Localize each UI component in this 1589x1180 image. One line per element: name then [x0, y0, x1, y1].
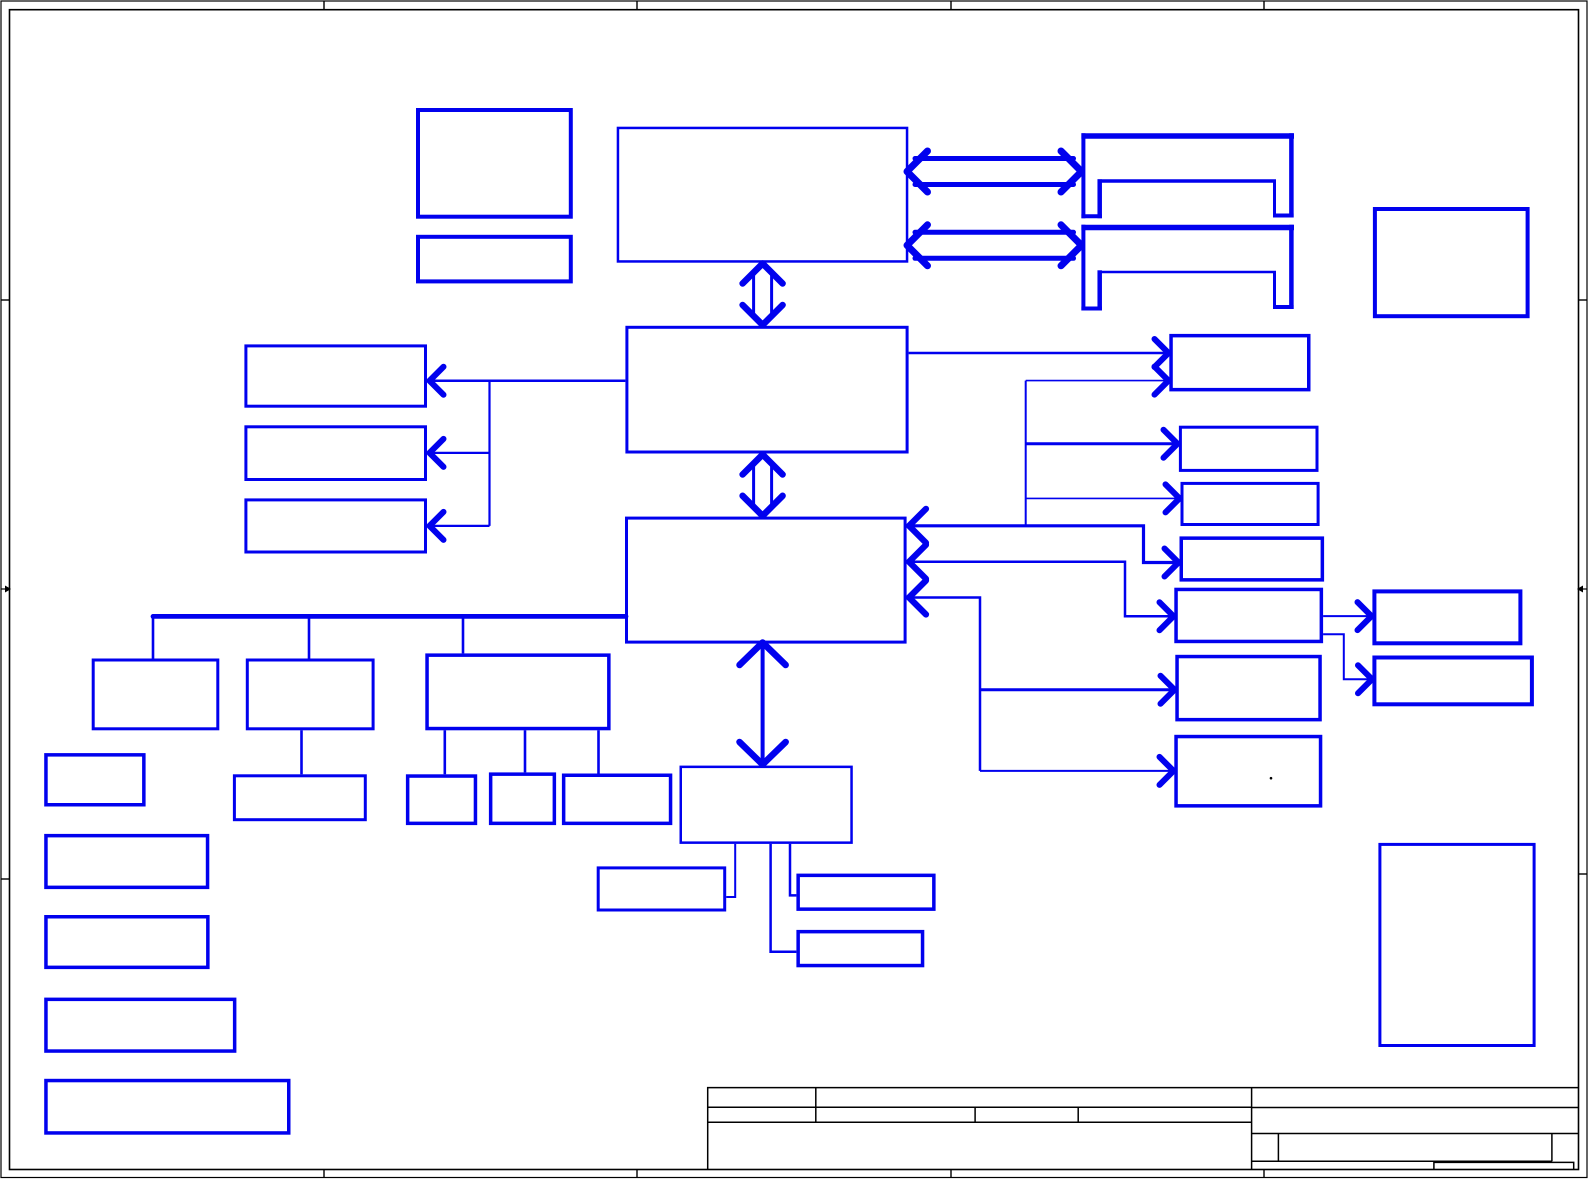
block L2b below L2	[234, 776, 365, 820]
bus arrow SB to USB	[740, 643, 786, 765]
wire bus drop to L1	[152, 616, 155, 658]
wire SB bus1 to R4	[911, 526, 1175, 563]
block R5 right col	[1176, 589, 1321, 641]
zone tick top 3	[950, 1, 952, 10]
block T2 top-left small	[418, 237, 571, 282]
node trunk left	[488, 381, 490, 526]
block L1 bus device	[93, 660, 218, 729]
block S1 below L3	[408, 776, 476, 823]
block L3 bus device	[427, 655, 609, 728]
block S3 below L3	[564, 775, 671, 823]
wire bus drop to L2	[308, 616, 311, 658]
wire R5 to FR1	[1323, 615, 1368, 617]
zone tick top 1	[323, 1, 325, 10]
block SB south bridge	[627, 518, 906, 642]
block FR2 far right	[1374, 658, 1532, 705]
node trunk right upper	[1025, 381, 1027, 526]
block R4 right col	[1181, 538, 1322, 580]
block LL1 left col	[46, 755, 144, 805]
wire trunk to R2	[1026, 442, 1174, 445]
block L2 bus device	[247, 660, 373, 729]
title block row line B	[708, 1121, 1252, 1123]
zone tick bottom 4	[1263, 1170, 1265, 1178]
centering arrow left edge	[1, 586, 11, 593]
bus arrow CPU to DIMM2	[907, 225, 1082, 266]
wire trunk to R1 lower	[1026, 380, 1165, 382]
block FR1 far right	[1374, 591, 1520, 643]
zone tick left lower	[1, 878, 10, 880]
wire NB to R1	[909, 352, 1165, 355]
bus arrow CPU to NB	[743, 264, 783, 326]
wire trunk to box C	[433, 525, 490, 527]
title block bottom strip	[1434, 1162, 1574, 1169]
block B3 below USB	[798, 932, 922, 966]
block A left row1	[246, 346, 426, 406]
wire L3 to S2	[524, 730, 527, 772]
block B left row2	[246, 427, 426, 480]
zone tick bottom 1	[323, 1170, 325, 1178]
wire NB to box A	[433, 380, 625, 383]
zone tick bottom 2	[636, 1170, 638, 1178]
title block row line A	[708, 1106, 1252, 1108]
memory socket DIMM1	[1081, 133, 1294, 218]
wire USB to B1	[726, 844, 735, 897]
block CPU	[618, 128, 907, 262]
block BR bottom-right tall	[1380, 844, 1534, 1045]
block R2 right col	[1180, 427, 1317, 470]
wire USB to B3	[771, 844, 797, 952]
block TR top-right	[1375, 209, 1528, 316]
bus PCI trunk	[153, 614, 626, 619]
block B2 below USB	[798, 875, 934, 909]
block C left row3	[246, 500, 426, 552]
block LL5 left col	[46, 1081, 289, 1133]
block USB hub	[681, 767, 852, 843]
wire trunk to box B	[433, 452, 490, 454]
centering arrow right edge	[1577, 586, 1587, 593]
bus arrow NB to SB	[743, 455, 783, 516]
bus arrow CPU to DIMM1	[907, 151, 1082, 192]
block LL2 left col	[46, 836, 208, 888]
title block cell divider v1	[815, 1088, 817, 1123]
wire L3 to S3	[597, 730, 600, 773]
wire bus drop to L3	[462, 616, 465, 653]
wire SB bus2 to R5	[911, 562, 1170, 617]
block R6 right col	[1177, 657, 1320, 720]
title block cell divider v3	[1077, 1107, 1079, 1122]
block R3 right col	[1182, 483, 1318, 524]
wire R5 to FR2	[1323, 634, 1369, 679]
title block bottom row line	[1252, 1160, 1552, 1162]
wire trunk to R6	[980, 688, 1171, 691]
block R1 right col	[1171, 336, 1309, 390]
zone tick left upper	[1, 299, 10, 301]
wire trunk to R7	[980, 770, 1170, 772]
title block right section divider	[1251, 1088, 1253, 1170]
wire L3 to S1	[443, 730, 446, 774]
title block small cell v2	[1551, 1134, 1553, 1162]
wire USB to B2	[790, 844, 796, 896]
title block cell divider v2	[974, 1107, 976, 1122]
block B1 below USB	[598, 868, 725, 910]
block LL3 left col	[46, 917, 208, 968]
block S2 below L3	[491, 774, 555, 823]
speck artifact	[1270, 777, 1273, 780]
zone tick bottom 3	[950, 1170, 952, 1178]
wire trunk to R3	[1026, 497, 1176, 499]
zone tick right lower	[1579, 873, 1588, 875]
zone tick right upper	[1579, 299, 1588, 301]
block NB north bridge	[627, 327, 907, 452]
block T1 top-left large	[418, 110, 571, 217]
zone tick top 4	[1263, 1, 1265, 10]
title block small cell v1	[1277, 1134, 1279, 1162]
memory socket DIMM2	[1081, 225, 1294, 311]
wire SB bus3 trunk	[911, 598, 980, 771]
title block right row line A	[1252, 1107, 1579, 1109]
wire L2 to L2b	[300, 730, 303, 774]
block LL4 left col	[46, 999, 235, 1051]
title block outline	[708, 1088, 1579, 1170]
title block right row line B	[1252, 1133, 1579, 1135]
block R7 right col	[1176, 737, 1321, 806]
zone tick top 2	[636, 1, 638, 10]
